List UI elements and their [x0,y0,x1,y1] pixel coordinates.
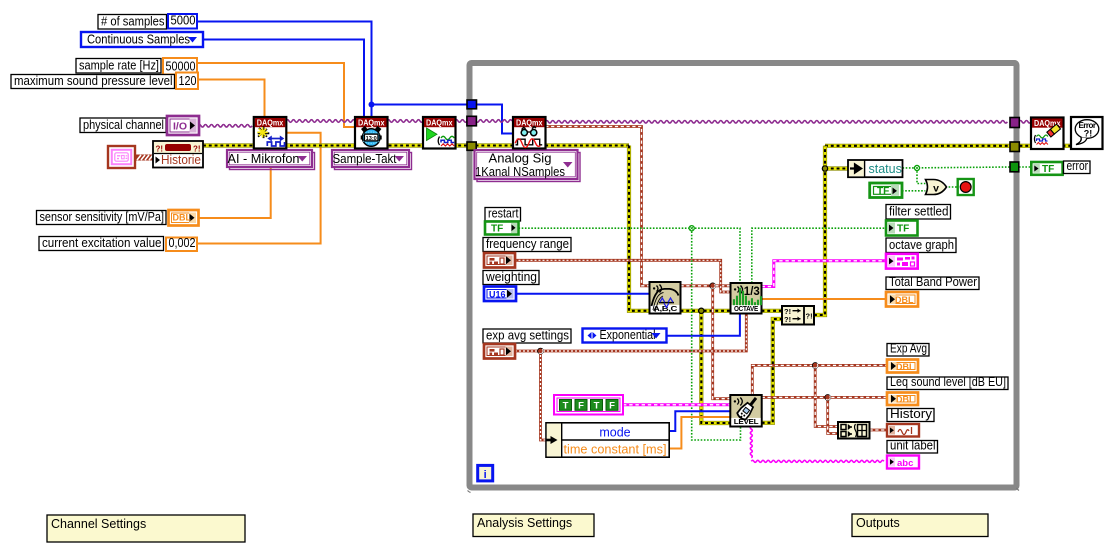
svg-text:OCTAVE: OCTAVE [734,304,758,313]
svg-text:Outputs: Outputs [856,516,900,530]
wire: exp avg settings (brown) [515,314,746,352]
svg-text:I/O: I/O [173,121,187,133]
svg-text:exp avg settings: exp avg settings [486,329,569,343]
OR gate [926,180,947,195]
ring: Analog Sig 1Kanal NSamples [475,150,581,182]
svg-text:TF: TF [897,224,909,235]
node: DAQmx Create Virtual Channel [254,117,286,149]
wire: physical channel / DAQmx task (purple squiggle) [198,125,252,128]
unbundle by name: mode / time constant [546,423,669,457]
wire: mode (blue) [669,411,730,431]
svg-text:unit label: unit label [890,439,936,453]
wire: Total Band Power (orange) [762,298,887,300]
wire: current excitation (orange) [198,133,321,244]
constant: 5000 [168,14,197,29]
label: Leq sound level [dB EU] [887,375,1008,390]
wire: filter settled from OCTAVE (green dotted) [752,228,886,283]
svg-text:maximum sound pressure level: maximum sound pressure level [14,73,173,88]
express VI: OCTAVE 1/3 analysis [731,283,763,314]
indicator: Exp Avg DBL [887,360,918,373]
svg-text:13:0: 13:0 [366,136,377,142]
svg-text:TF: TF [1042,164,1054,175]
label: current excitation value [39,235,164,251]
wire: # of samples (blue) [198,22,372,118]
svg-text:Sample-Takt: Sample-Takt [333,151,397,166]
indicator: Total Band Power DBL [886,292,918,307]
wire: time constant (orange) [669,417,730,449]
svg-text:History: History [890,407,933,421]
wire: chart reference (hatched) [135,155,153,160]
node: Simple Error Handler [1071,117,1103,149]
wire: Exponential mode (blue) [667,314,740,336]
svg-text:Historie: Historie [161,152,201,167]
svg-text:physical channel: physical channel [83,117,164,132]
junction: status boolean [914,165,919,170]
wire: error branch to LEVEL [701,311,730,423]
boolean array constant T F T F [554,395,623,415]
label: Total Band Power [886,275,979,290]
svg-text:DBL: DBL [896,395,915,405]
control: exp avg settings enum [484,344,515,359]
wire: octave graph (magenta dashed) [762,261,887,287]
svg-text:0,002: 0,002 [169,236,196,250]
wire: merged error up to main run [814,146,825,315]
svg-text:mode: mode [599,425,630,439]
label: Exp Avg [887,342,929,357]
wire: frequency range (brown) [515,260,731,292]
wire: continuous samples (blue) [203,40,364,118]
wire: Leq out (brown) [762,396,886,399]
svg-text:v: v [933,183,939,195]
svg-text:time constant [ms]: time constant [ms] [564,443,667,457]
svg-text:Channel Settings: Channel Settings [51,517,146,531]
svg-text:?!: ?! [784,315,791,324]
svg-text:sample rate [Hz]: sample rate [Hz] [79,58,159,73]
tunnel: task in (purple) [467,116,477,126]
wire: exp avg settings branch to unbundle [541,351,547,440]
comment: Channel Settings [47,515,245,542]
svg-text:i: i [484,469,487,481]
label: error [1064,159,1091,174]
ring: Sample-Takt [332,150,412,170]
svg-text:DBL: DBL [895,295,914,305]
svg-text:AI - Mikrofon: AI - Mikrofon [228,151,300,166]
svg-text:octave graph: octave graph [889,238,954,252]
svg-text:status: status [869,162,902,176]
wire: max sound pressure (orange) [199,80,265,117]
svg-text:F: F [609,400,615,411]
unbundle by name: status [848,160,903,177]
junction: exp avg settings [538,348,544,354]
svg-text:T: T [594,400,600,411]
junction: restart [689,226,694,231]
tunnel: error out (olive) [1010,142,1019,152]
wire: error branch to status unbundle [825,166,848,170]
label: # of samples [98,14,167,30]
svg-text:Leq sound level [dB EU]: Leq sound level [dB EU] [890,375,1006,389]
comment: Outputs [852,514,988,537]
tunnel: samples (blue) [467,100,477,109]
svg-text:?!: ?! [806,311,813,320]
svg-text:sensor sensitivity [mV/Pa]: sensor sensitivity [mV/Pa] [40,209,165,224]
svg-text:T: T [563,400,569,411]
indicator: unit label string [887,456,919,469]
chart reference constant [108,146,135,168]
tunnel: task out (purple) [1010,118,1019,128]
tunnel: stop boolean (green) [1010,162,1019,172]
label: History [887,407,934,422]
svg-text:Exp Avg: Exp Avg [890,342,927,356]
label: exp avg settings [483,329,571,344]
wire: Exp Avg branch to build node [815,365,838,426]
comment: Analysis Settings [473,514,594,537]
express VI: A,B,C weighting filter [650,282,681,314]
wire: history out (brown) [870,429,887,432]
control: sensor sensitivity DBL [169,210,199,226]
build/interleave node [838,422,870,439]
svg-text:DAQmx: DAQmx [257,118,284,128]
wire: filtered data branch to LEVEL [713,286,731,399]
label: octave graph [886,238,956,253]
wire: error A,B,C to OCTAVE [681,309,731,313]
label: filter settled [886,205,951,220]
junction: Exp Avg [812,363,818,369]
svg-text:restart: restart [488,207,519,221]
svg-text:?!: ?! [1084,129,1093,139]
control: physical channel I/O [167,116,199,135]
node: DAQmx Read [513,117,546,149]
ring: AI - Mikrofon [227,150,315,170]
label: sensor sensitivity [mV/Pa] [37,209,167,225]
junction: error to status [822,166,827,171]
constant: 50000 [163,58,197,75]
wire: error down to filter chain [629,146,650,311]
wire: boolean array to LEVEL (magenta dashed) [623,403,730,406]
svg-text:# of samples: # of samples [101,14,165,29]
junction: Leq [825,395,831,401]
constant: 120 [176,73,198,90]
constant: 0,002 [166,236,197,251]
enum constant: Exponential [583,327,667,343]
svg-text:DBL: DBL [896,362,915,372]
indicator: filter settled TF [886,221,918,236]
wire: restart (green dotted) [519,227,692,229]
node: DAQmx Clear Task [1031,118,1064,150]
svg-text:F: F [578,400,584,411]
wire: error LEVEL out to merge errors [762,319,782,423]
svg-text:1Kanal NSamples: 1Kanal NSamples [475,164,565,179]
tunnel: error in (olive) [467,142,476,150]
wire: error cluster main run (yellow/black) [203,143,629,147]
svg-text:Continuous Samples: Continuous Samples [87,31,190,46]
control: stop TF [870,183,902,198]
enum: Continuous Samples [81,31,203,47]
wire: sample rate (orange) [198,63,355,127]
constant: restart TF [485,222,519,235]
wire: error OCTAVE to merge errors [762,309,783,313]
label: sample rate [Hz] [76,58,161,74]
node: DAQmx Timing [355,117,388,149]
merge errors node [782,306,814,325]
svg-text:frequency range: frequency range [486,237,569,251]
indicator: octave graph [886,254,918,269]
wire: unit label (pink squiggle) [750,427,752,458]
wire: sensor sensitivity (orange) [198,149,271,218]
indicator: History waveform [887,424,919,437]
indicator: error TF [1031,162,1062,175]
label: frequency range [483,237,571,252]
indicator: Leq DBL [887,393,918,406]
junction: filtered data [710,283,716,289]
wire: Leq branch to build node [828,397,838,433]
svg-text:DAQmx: DAQmx [426,118,453,128]
svg-text:5000: 5000 [171,14,196,28]
wire: Exp Avg out (brown) [752,365,886,395]
wire: Read data out (brown) [545,127,649,286]
svg-text:current excitation value: current excitation value [42,235,162,250]
while loop border [468,63,1020,493]
express VI: LEVEL meter [730,395,761,427]
svg-text:DAQmx: DAQmx [516,118,543,128]
svg-text:Exponential: Exponential [600,327,656,342]
label: maximum sound pressure level [11,73,175,89]
loop condition stop terminal [958,179,974,195]
svg-text:U16: U16 [489,290,506,300]
svg-text:Total Band Power: Total Band Power [889,275,977,289]
wire: status boolean (green dotted) [903,167,1011,168]
svg-text:DAQmx: DAQmx [358,118,385,128]
label: physical channel [80,117,166,133]
wire: A,B,C filtered data to OCTAVE [681,284,731,287]
control: weighting U16 [484,287,516,302]
svg-text:filter settled: filter settled [889,205,949,219]
node: DAQmx Start Task [423,117,456,149]
property node: Historie [153,141,203,168]
svg-text:weighting: weighting [485,270,537,284]
wire: weighting (blue) [516,293,650,295]
svg-text:120: 120 [179,74,197,88]
label: restart [485,207,521,222]
svg-text:50000: 50000 [166,60,196,74]
svg-text:DBL: DBL [173,213,192,223]
svg-text:Analysis Settings: Analysis Settings [477,516,572,530]
svg-text:TF: TF [491,224,503,235]
svg-text:TF: TF [877,186,889,197]
iteration terminal i [478,465,493,481]
svg-text:abc: abc [897,458,913,469]
control: frequency range enum [484,253,515,268]
svg-text:error: error [1067,159,1089,173]
label: unit label [887,439,938,454]
label: weighting [483,270,539,285]
